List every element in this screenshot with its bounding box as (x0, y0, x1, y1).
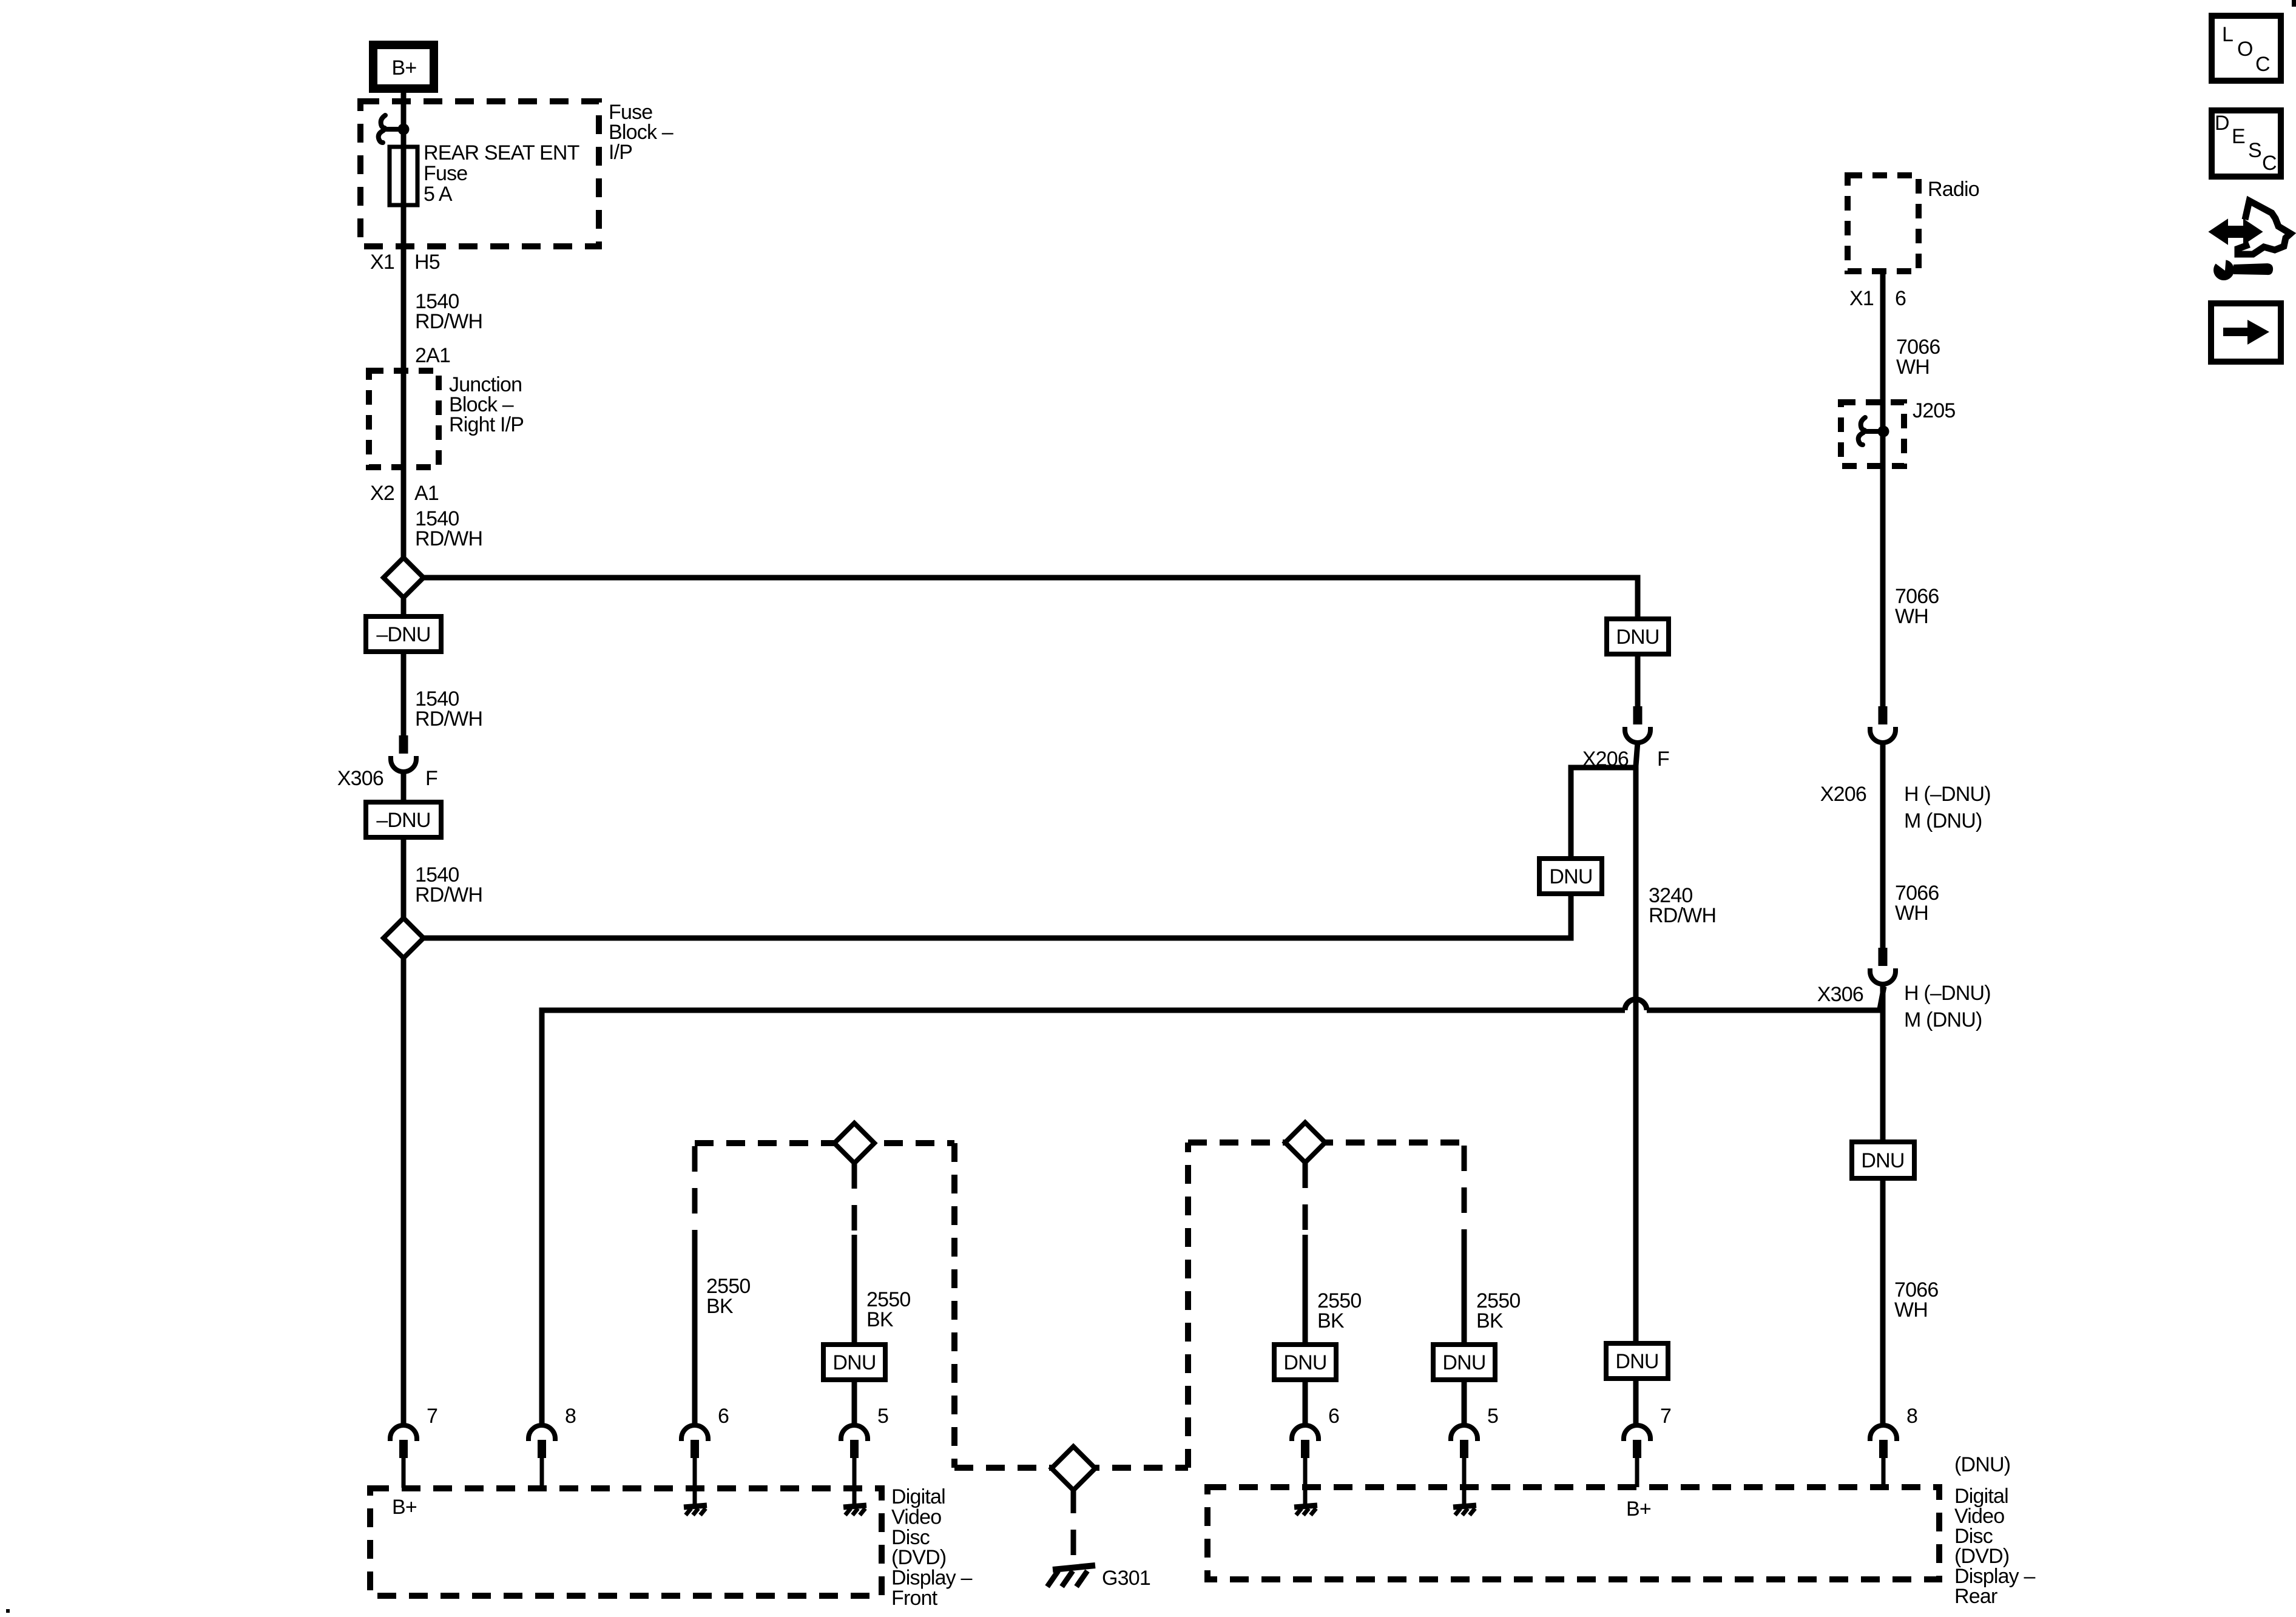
ground bus: dashed bottom edge with G301 diamond (954, 1465, 1188, 1471)
wire: continuing right to X306 H junction (1647, 1008, 1880, 1013)
connector X206 cavity F (1625, 706, 1650, 743)
ground bus: dashed drop at right edge of rear splice pack (1462, 1146, 1467, 1235)
wire: 3240 RD/WH from X206 F socket down to DVD rear display pin 7 (1636, 742, 1638, 1425)
box -DNU upper (366, 616, 441, 652)
svg-text:JunctionBlock –Right I/P: JunctionBlock –Right I/P (449, 373, 524, 436)
svg-text:DNU: DNU (1549, 865, 1592, 888)
box DNU rear pin 5 (1433, 1345, 1495, 1380)
power symbol B+ box (373, 45, 434, 89)
svg-text:H5: H5 (414, 251, 440, 274)
wire: hop over 3240 RD/WH wire (1625, 999, 1647, 1010)
svg-text:B+: B+ (392, 1496, 417, 1519)
ground bus: dashed left edge into DVD front pin 6 wire (692, 1146, 698, 1232)
wire: DVD front pin 8 up and right toward X306 H junction (542, 1010, 1625, 1425)
svg-text:X1: X1 (370, 251, 394, 274)
svg-text:A1: A1 (414, 482, 439, 505)
svg-text:B+: B+ (392, 56, 417, 79)
module pin 6 rear with ground (1292, 1425, 1319, 1458)
svg-text:C: C (2255, 53, 2270, 76)
splice J205 dashed outline (1841, 402, 1904, 466)
wire: 2550 BK through DNU to DVD rear pin 6 (1303, 1235, 1308, 1345)
splice diamond on front ground pack (834, 1123, 874, 1163)
icon arrow box (2211, 303, 2281, 362)
svg-text:O: O (2237, 38, 2253, 61)
wire: 1540 RD/WH from diamond 1 through -DNU to X306 F pin (401, 598, 407, 735)
wire: 2550 BK to DVD front pin 6 (692, 1232, 698, 1425)
wire: 1540 RD/WH from diamond 2 down to DVD front display pin 7 (401, 958, 407, 1425)
radio dashed outline (1848, 175, 1919, 271)
svg-text:5: 5 (877, 1405, 888, 1428)
svg-text:DNU: DNU (1615, 1350, 1658, 1373)
svg-text:X306: X306 (1817, 983, 1863, 1006)
svg-text:6: 6 (1328, 1405, 1339, 1428)
svg-text:DNU: DNU (1283, 1351, 1326, 1374)
svg-text:M (DNU): M (DNU) (1904, 1008, 1982, 1031)
box -DNU lower (366, 802, 441, 837)
DVD front display dashed outline (370, 1488, 882, 1596)
svg-text:7: 7 (1660, 1405, 1671, 1428)
splice diamond 2 (383, 918, 424, 958)
splice diamond on rear ground pack (1285, 1122, 1325, 1163)
fuse block I/P dashed outline (360, 101, 599, 246)
svg-text:8: 8 (565, 1405, 576, 1428)
module pin 8 front (528, 1425, 555, 1458)
svg-text:X206: X206 (1582, 748, 1629, 771)
wire: B+ feed through REAR SEAT ENT fuse, 1540 RD/WH down to splice diamond 1 (401, 93, 407, 558)
svg-text:2A1: 2A1 (415, 344, 450, 367)
module pin 6 front with ground (681, 1425, 708, 1458)
ground bus: dashed right edge (front splice pack) (951, 1143, 957, 1468)
svg-text:7: 7 (427, 1405, 437, 1428)
svg-text:X306: X306 (337, 767, 383, 790)
svg-text:8: 8 (1906, 1405, 1917, 1428)
svg-text:–DNU: –DNU (376, 809, 430, 832)
bus attachment curl J205 (1859, 417, 1889, 445)
bus attachment curl in fuse block (379, 115, 410, 143)
wire: from DNU down then left to splice diamond 2 (424, 894, 1571, 938)
ground bus: dashed drop from rear splice diamond (1303, 1163, 1308, 1235)
svg-text:S: S (2248, 139, 2261, 162)
svg-text:DNU: DNU (1616, 626, 1659, 649)
svg-text:DNU: DNU (832, 1351, 876, 1374)
svg-text:DNU: DNU (1442, 1351, 1485, 1374)
wire: 2550 BK through DNU to DVD front pin 5 (852, 1235, 857, 1345)
page dot bottom left (6, 1609, 10, 1613)
svg-text:E: E (2232, 125, 2245, 148)
svg-text:5: 5 (1487, 1405, 1498, 1428)
wire: 7066 WH radio X1-6 down to X206 H pin (1880, 271, 1886, 706)
svg-text:–DNU: –DNU (376, 623, 430, 646)
wire: 1540 RD/WH from X306 F socket to splice diamond 2 (401, 771, 407, 918)
splice diamond 1 (383, 558, 424, 598)
svg-text:X1: X1 (1849, 287, 1874, 310)
ground bus: dashed drop to G301 (1071, 1488, 1076, 1564)
module pin 7 front (390, 1425, 417, 1458)
DVD rear display dashed outline (1207, 1487, 1939, 1579)
box DNU on radio line (1852, 1142, 1914, 1178)
ground bus: dashed drop from front splice diamond (852, 1163, 857, 1235)
connector X306 cavity F (391, 735, 416, 772)
icon double arrow with panel and wrench (2210, 201, 2291, 280)
svg-text:X2: X2 (370, 482, 394, 505)
ground G301 (1047, 1565, 1095, 1587)
svg-text:J205: J205 (1913, 399, 1956, 422)
wire: 7066 WH from DNU down to DVD rear display pin 8 (1880, 1178, 1886, 1425)
connector X306 cavity H/M (1870, 948, 1896, 984)
connector X206 cavity H/M (1870, 706, 1896, 743)
wire: branch from diamond 1 right and down to DNU (radio feed branch) (424, 578, 1638, 619)
svg-text:DNU: DNU (1861, 1149, 1904, 1172)
ground bus: dashed top edge (rear) (1188, 1139, 1464, 1146)
module pin 8 rear (1870, 1425, 1897, 1458)
wire: DNU box to X206 F pin (1635, 654, 1641, 706)
icon DESC box (2212, 110, 2281, 177)
ground bus: dashed left edge (rear splice pack) (1185, 1143, 1191, 1468)
wire: 7066 WH from X306 H socket to DNU (1880, 984, 1886, 1142)
svg-text:D: D (2215, 112, 2229, 135)
svg-text:F: F (425, 767, 437, 790)
svg-text:C: C (2262, 152, 2277, 175)
wire: branch from X206 F junction left and down to DNU toward diamond 2 (1571, 768, 1636, 859)
svg-text:M (DNU): M (DNU) (1904, 809, 1982, 832)
junction block right I/P dashed outline (369, 371, 439, 467)
svg-text:6: 6 (718, 1405, 729, 1428)
module pin 5 front with ground (841, 1425, 868, 1458)
box DNU rear pin 7 (1606, 1343, 1668, 1379)
svg-text:6: 6 (1895, 287, 1906, 310)
svg-text:L: L (2222, 23, 2233, 46)
svg-text:B+: B+ (1626, 1497, 1651, 1521)
box DNU on radio feed branch (1607, 619, 1669, 654)
svg-text:F: F (1657, 748, 1669, 771)
svg-text:H (–DNU): H (–DNU) (1904, 783, 1991, 806)
ground bus: dashed splice pack top edge (front) (695, 1140, 954, 1146)
wire: 7066 WH from X206 H socket to X306 H pin (1880, 742, 1886, 948)
svg-text:X206: X206 (1820, 783, 1866, 806)
splice diamond at G301 bus (1052, 1447, 1095, 1490)
icon LOC box (2212, 16, 2281, 81)
box DNU mid branch (1539, 859, 1602, 894)
box DNU front pin 5 (823, 1345, 885, 1380)
wire: slant joining X306 H socket (1880, 987, 1884, 1009)
svg-text:(DNU): (DNU) (1954, 1453, 2010, 1476)
box DNU rear pin 6 (1274, 1345, 1336, 1380)
fuse REAR SEAT ENT 5A (390, 147, 417, 205)
module pin 5 rear with ground (1451, 1425, 1477, 1458)
svg-text:Radio: Radio (1928, 178, 1979, 201)
page corner mark (2292, 0, 2296, 7)
svg-text:H (–DNU): H (–DNU) (1904, 982, 1991, 1005)
module pin 7 rear (1624, 1425, 1650, 1458)
svg-text:G301: G301 (1102, 1567, 1150, 1590)
wire: 2550 BK through DNU to DVD rear pin 5 (1462, 1235, 1467, 1345)
